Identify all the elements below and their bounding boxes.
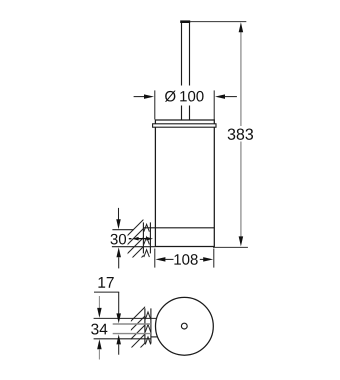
extension line Ø100 right: [213, 90, 215, 119]
arrow 17 bottom (points up): [116, 334, 121, 344]
label 34: [91, 324, 107, 335]
plan view circle: [156, 297, 214, 355]
leader drop 17: [118, 292, 120, 314]
arrow 383 up: [239, 22, 244, 32]
leader dash after 30: [129, 238, 132, 239]
rod top cap: [180, 20, 190, 23]
label 30: [111, 234, 127, 245]
dimension 108 right shaft: [200, 258, 204, 260]
wall line inner (plan view): [150, 308, 152, 343]
dimension Ø100 left tail: [134, 96, 147, 98]
label Ø100: [165, 91, 204, 102]
label 383: [228, 129, 253, 140]
arrow 108 left (points left): [155, 257, 165, 262]
dimension 30 bottom arrow tail: [118, 257, 120, 268]
arrow 34 top (points down): [97, 308, 102, 318]
wall line inner (front view): [149, 222, 151, 253]
extension line 30 bottom / plate base: [112, 246, 155, 248]
base band top edge: [143, 227, 214, 229]
wall line outer (front view): [142, 222, 144, 253]
arrow Ø100 left (points right): [144, 94, 154, 99]
extension line 383 top: [190, 21, 246, 23]
arrow 383 down: [239, 236, 244, 246]
container body: [155, 120, 214, 247]
extension line 30 top: [112, 229, 133, 231]
plate line 17 upper (light): [113, 323, 151, 325]
arrow 34 bottom (points up): [97, 339, 102, 349]
dimension 34 top tail: [98, 296, 100, 308]
arrow 17 top (points down): [116, 313, 121, 323]
dimension 34 bottom tail: [98, 349, 100, 359]
label 17: [98, 277, 113, 288]
wall hatching diagonals (plan view): [122, 300, 152, 375]
dimension Ø100 right tail: [225, 96, 237, 98]
wall line outer (plan view): [144, 308, 146, 343]
arrow 30 bottom (points up): [116, 247, 121, 257]
plate line 17 lower (light): [113, 333, 151, 335]
wall hatching diagonals (front view): [120, 213, 150, 288]
wall chevrons (front view): [144, 224, 150, 257]
leader bar under 17: [94, 291, 119, 293]
dimension line 383 (vertical, light): [240, 32, 242, 238]
extension line 34 bottom: [94, 338, 151, 340]
extension line 34 top / plate top: [94, 317, 157, 319]
plan view center dot: [181, 323, 187, 329]
dimension 108 left shaft: [165, 258, 174, 260]
extension line 108 left: [154, 249, 156, 268]
leader arrow to mount plate: [132, 237, 153, 241]
arrow 30 top (points down): [116, 219, 121, 229]
wall chevrons (plan view): [145, 312, 150, 345]
extension line 108 right: [213, 249, 215, 268]
label 108: [174, 254, 197, 265]
container lid flange: [153, 124, 216, 127]
arrow Ø100 right (points left): [215, 94, 225, 99]
brush handle rod: [182, 23, 190, 120]
dimension 17 bottom tail: [118, 344, 120, 354]
arrow 108 right (points right): [203, 257, 213, 262]
extension line 383 bottom: [213, 246, 248, 248]
dimension 30 top arrow tail: [118, 208, 120, 220]
extension line Ø100 left: [154, 90, 156, 119]
plate bottom stub to circle: [151, 336, 157, 338]
